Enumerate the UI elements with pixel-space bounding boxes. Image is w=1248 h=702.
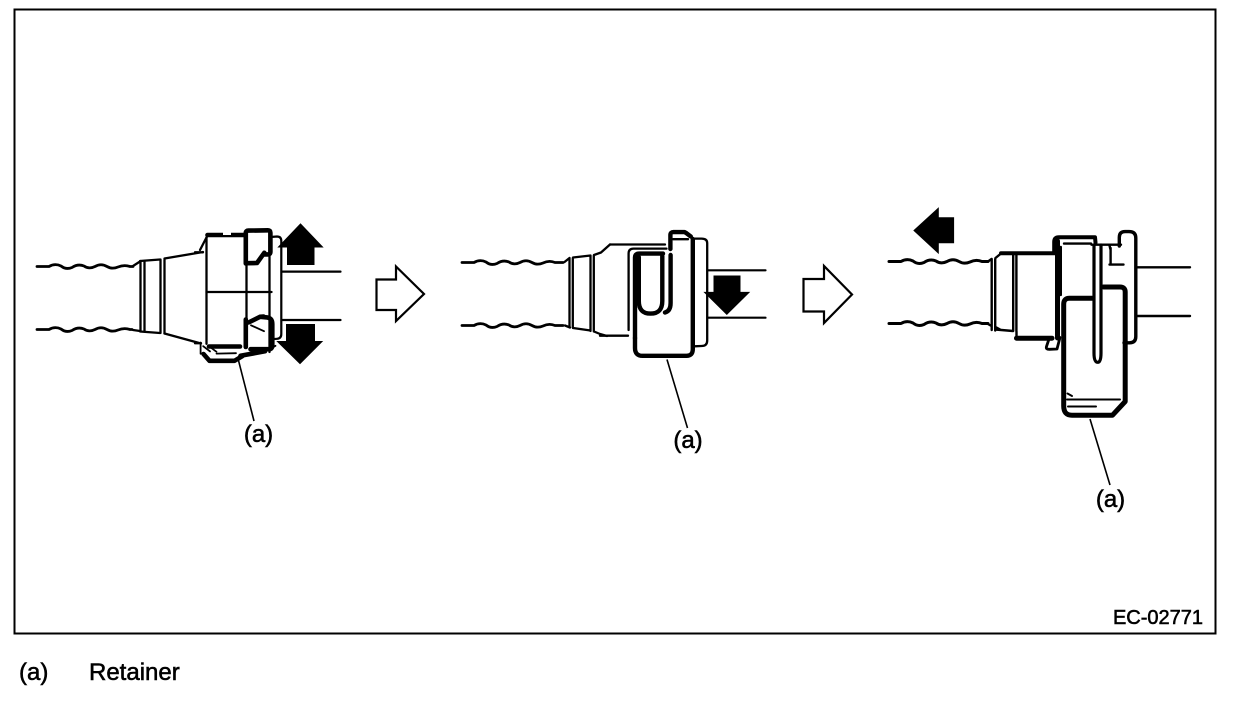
svg-text:(a): (a) bbox=[19, 659, 48, 686]
svg-text:EC-02771: EC-02771 bbox=[1113, 607, 1203, 629]
svg-text:(a): (a) bbox=[1096, 486, 1125, 513]
svg-text:(a): (a) bbox=[673, 427, 702, 454]
svg-text:Retainer: Retainer bbox=[89, 659, 180, 686]
svg-text:(a): (a) bbox=[244, 421, 273, 448]
